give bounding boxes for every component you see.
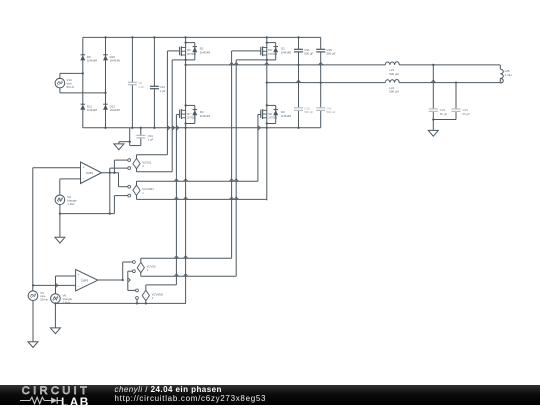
svg-text:−: − [83, 177, 85, 181]
svg-text:500 µH: 500 µH [389, 90, 398, 94]
svg-text:2N7000: 2N7000 [187, 115, 197, 119]
svg-text:M5: M5 [187, 48, 191, 52]
svg-text:+: + [78, 273, 80, 277]
svg-text:50 Hz: 50 Hz [67, 85, 75, 89]
svg-text:1 µF: 1 µF [160, 89, 166, 93]
svg-text:1N4148: 1N4148 [87, 108, 98, 112]
svg-text:M7: M7 [187, 112, 191, 116]
svg-text:2N7000: 2N7000 [268, 52, 278, 56]
svg-text:1N4148: 1N4148 [87, 59, 98, 63]
svg-text:1N4148: 1N4148 [281, 114, 292, 118]
svg-text:+: + [83, 166, 85, 170]
svg-text:1N4148: 1N4148 [281, 50, 292, 54]
svg-text:1: 1 [142, 191, 144, 195]
svg-text:VCVSM1: VCVSM1 [142, 187, 154, 191]
svg-text:50 Hz: 50 Hz [40, 298, 48, 302]
svg-text:1 kHz: 1 kHz [67, 202, 75, 206]
svg-text:−: − [78, 284, 80, 288]
svg-text:2N7000: 2N7000 [268, 115, 278, 119]
svg-text:1: 1 [152, 296, 154, 300]
svg-text:VCVSM2: VCVSM2 [152, 292, 164, 296]
svg-text:1N4148: 1N4148 [110, 59, 121, 63]
svg-text:2N7000: 2N7000 [187, 52, 197, 56]
svg-text:500 µF: 500 µF [326, 110, 335, 114]
svg-text:1 mH: 1 mH [505, 73, 512, 77]
svg-text:500 µH: 500 µH [389, 72, 398, 76]
svg-text:CMP3: CMP3 [81, 278, 89, 282]
svg-text:1N4148: 1N4148 [200, 50, 211, 54]
svg-text:1N4148: 1N4148 [200, 114, 211, 118]
svg-text:50 µF: 50 µF [440, 112, 448, 116]
svg-text:M8: M8 [268, 112, 272, 116]
svg-text:500 µF: 500 µF [304, 52, 313, 56]
svg-text:1: 1 [142, 164, 144, 168]
svg-text:CMP2: CMP2 [86, 171, 94, 175]
svg-text:1: 1 [147, 268, 149, 272]
svg-text:1 µF: 1 µF [138, 85, 144, 89]
svg-text:500 µF: 500 µF [304, 110, 313, 114]
svg-text:500 µF: 500 µF [326, 52, 335, 56]
svg-text:1 µF: 1 µF [148, 138, 154, 142]
svg-text:1N4148: 1N4148 [110, 108, 121, 112]
svg-text:50 µF: 50 µF [462, 112, 470, 116]
svg-text:M6: M6 [268, 48, 272, 52]
